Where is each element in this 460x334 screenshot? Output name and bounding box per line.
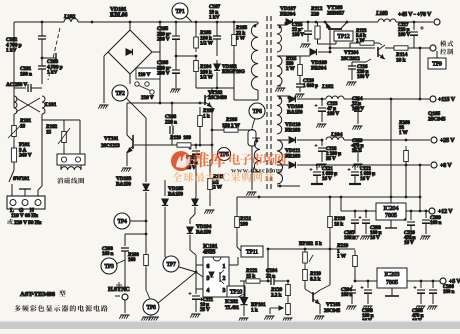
test point TP5: [218, 148, 231, 161]
svg-text:TP3: TP3: [104, 264, 113, 270]
wire VT103 base drive: [329, 29, 331, 52]
resistor R106: [212, 128, 250, 132]
test point TP10 box: [227, 286, 245, 297]
resistor R110: [172, 143, 196, 147]
resistor R100: [144, 252, 149, 268]
capacitor C107: [216, 22, 218, 36]
svg-text:VD110FR103: VD110FR103: [285, 122, 301, 133]
capacitor C108: [171, 103, 173, 126]
diode VD103: [145, 165, 147, 182]
capacitor C205: [420, 281, 422, 288]
ground primary mid: [170, 89, 180, 93]
test point TP6: [249, 103, 265, 119]
test point TP2: [112, 85, 128, 101]
ground secondary tap: [275, 88, 285, 92]
wire VT101 emitter ground: [126, 152, 128, 166]
wire to C100 branch: [125, 233, 146, 235]
svg-text:TP6: TP6: [252, 109, 261, 115]
resistor R112: [315, 26, 320, 39]
svg-text:220 V 50 Hz: 220 V 50 Hz: [14, 220, 42, 226]
resistor R122: [240, 279, 266, 283]
wire L103 to +45V terminal: [396, 21, 433, 23]
wire VT105 emitter ground: [319, 304, 321, 314]
pot RP102: [303, 249, 308, 266]
svg-text:VD103BA150: VD103BA150: [116, 176, 132, 187]
resistor R107: [199, 107, 201, 112]
wire TP11 to R121: [237, 247, 241, 251]
transistor VT105: [313, 290, 320, 304]
svg-text:IC204: IC204: [384, 206, 399, 212]
terminal +115V: [430, 96, 436, 102]
svg-text:L103: L103: [375, 11, 388, 17]
resistor R102: [62, 126, 67, 148]
transformer secondary winding 4: [277, 140, 283, 184]
svg-text:VD111FR103: VD111FR103: [285, 148, 300, 159]
test point TP12 box: [334, 31, 353, 41]
svg-text:TP1: TP1: [175, 9, 184, 15]
inductor L102: [64, 19, 78, 22]
wire TP2 column to VD103: [145, 118, 147, 165]
wire IC203 out: [407, 280, 440, 282]
svg-text:VD106BA150: VD106BA150: [287, 104, 303, 115]
wire left border vertical: [13, 22, 15, 108]
wire TP7 to IC101: [179, 267, 196, 272]
resistor R104: [194, 56, 199, 76]
capacitor C106: [175, 56, 177, 70]
connector earth pin: [24, 189, 26, 196]
wire N to connector: [41, 120, 43, 186]
wire R113 ends: [350, 42, 355, 44]
capacitor C116: [348, 66, 356, 69]
test point TP1: [172, 3, 188, 19]
scan bottom gray band: [0, 322, 460, 329]
test point TP3: [101, 258, 117, 274]
svg-text:SW101: SW101: [13, 176, 30, 182]
svg-text:4: 4: [207, 288, 210, 294]
connector plug box L G N: [7, 196, 45, 209]
switch SW101: [9, 170, 14, 182]
wire VT104 emitter: [366, 59, 371, 62]
IC203 box: [377, 268, 407, 288]
transformer feedback winding: [252, 137, 260, 139]
wire R102 branch: [41, 114, 43, 120]
wire R116 bottom: [329, 250, 331, 285]
svg-text:C101100 n: C101100 n: [20, 66, 32, 77]
inductor L104: [326, 137, 344, 140]
wire R103-R104 tie: [176, 55, 196, 57]
inductor L103: [378, 19, 396, 22]
wire VT105 collector up: [320, 285, 330, 290]
resistor R111: [209, 160, 211, 174]
resistor R119: [303, 266, 308, 284]
wire top bus to bridge: [78, 21, 160, 23]
resistor R219: [354, 250, 356, 252]
svg-text:2SC945: 2SC945: [324, 308, 341, 314]
choke L101 left winding: [14, 96, 17, 114]
svg-text:C209100 n: C209100 n: [430, 215, 441, 226]
svg-text:VD107FR304: VD107FR304: [280, 6, 296, 17]
wire R105 to transformer top: [233, 60, 235, 88]
wire secondary taps: [277, 24, 285, 26]
capacitor C122: [354, 165, 356, 170]
wire VT102 emitter net: [211, 107, 213, 160]
capacitor C203: [367, 281, 369, 288]
capacitor C208: [365, 211, 367, 218]
capacitor C118: [321, 140, 323, 146]
ground TP8: [150, 315, 152, 316]
transistor VT103: [325, 22, 347, 29]
wire C108 down: [171, 134, 173, 145]
shunt reg IC102 TL431: [240, 280, 244, 282]
terminal mode control: [430, 45, 436, 51]
ground RP101: [282, 318, 292, 322]
svg-text:H.SYNC: H.SYNC: [108, 287, 130, 293]
wire R110 to R107: [196, 144, 212, 146]
transformer core dashed lines: [266, 16, 268, 192]
svg-text:C105220 µ200 V: C105220 µ200 V: [157, 26, 170, 43]
terminal +12V: [429, 208, 435, 214]
svg-text:AST-TE3498: AST-TE3498: [20, 291, 56, 298]
wire bus drop from transformer ground region: [258, 196, 260, 197]
fuse F101: [13, 140, 15, 148]
capacitor C112: [195, 144, 198, 147]
choke L101 right winding: [42, 96, 45, 114]
svg-text:6: 6: [207, 264, 210, 270]
svg-text:TP11: TP11: [246, 250, 258, 256]
ground feedback winding: [246, 192, 256, 196]
wire H.SYNC: [124, 262, 126, 292]
resistor R120: [286, 281, 291, 299]
resistor R121: [236, 197, 238, 212]
diode VD102: [214, 64, 220, 70]
terminal +5V: [440, 278, 446, 284]
diode VD104: [190, 214, 195, 219]
IC101 box: [203, 257, 229, 297]
svg-text:+45 V - +70 V: +45 V - +70 V: [398, 12, 432, 18]
svg-text:TP9: TP9: [432, 62, 442, 68]
IC204 ground pin: [390, 220, 392, 228]
svg-text:+8 V: +8 V: [440, 163, 452, 169]
selector contacts: [135, 82, 139, 86]
transformer secondary winding 2: [277, 56, 282, 86]
svg-text:IC203: IC203: [385, 272, 400, 278]
svg-text:C106220 µ200 V: C106220 µ200 V: [157, 60, 170, 77]
svg-text:R110 100: R110 100: [169, 135, 191, 141]
svg-text:2: 2: [223, 276, 226, 282]
svg-text:110 V: 110 V: [138, 72, 150, 78]
svg-text:7805: 7805: [386, 280, 398, 286]
capacitor C104: [271, 277, 274, 285]
capacitor C121: [316, 165, 318, 170]
capacitor C206: [432, 281, 434, 288]
svg-text:C108220 n: C108220 n: [165, 114, 177, 125]
svg-text:L101: L101: [44, 102, 57, 108]
wire VT102 base row: [127, 102, 205, 104]
wire top bus middle: [160, 21, 258, 23]
capacitor C119: [357, 140, 359, 146]
thermistor R101: [12, 122, 17, 140]
wire IC101 pin4: [196, 288, 203, 290]
wire VD109 to VT104 base: [330, 47, 375, 49]
choke cross wires: [16, 98, 40, 112]
capacitor C105: [175, 22, 177, 36]
capacitor C117: [413, 22, 415, 30]
diode VD111: [289, 162, 295, 168]
degaussing coil symbol: [61, 167, 81, 170]
svg-text:2SC1912: 2SC1912: [341, 56, 360, 62]
svg-text:TP10: TP10: [230, 290, 242, 296]
capacitor C100: [121, 248, 129, 251]
svg-text:R1198.2 k: R1198.2 k: [309, 271, 321, 282]
test point TP9 box: [428, 58, 446, 69]
wire x420 8V to 12V: [419, 165, 421, 211]
terminal +25V: [431, 137, 437, 143]
capacitor C207: [354, 211, 356, 218]
wire VD103 junction: [145, 220, 148, 223]
bridge rectifier VD101: [108, 30, 152, 74]
capacitor C101: [14, 87, 26, 89]
svg-text:3: 3: [223, 288, 226, 294]
wire pot wiper stub: [269, 308, 271, 314]
wire VT101 collector up: [126, 103, 128, 135]
svg-text:TP7: TP7: [166, 262, 175, 268]
wire rail to VT103: [308, 21, 378, 23]
capacitor C103: [38, 66, 46, 69]
svg-text:TP12: TP12: [337, 34, 349, 40]
watermark logo circle: [171, 151, 191, 171]
svg-text:RP102 5 k: RP102 5 k: [299, 241, 322, 247]
capacitor C113: [321, 99, 323, 106]
transformer core dashes L101/L102 coupling: [48, 28, 60, 80]
svg-text:110 V 60 Hz: 110 V 60 Hz: [11, 213, 39, 219]
watermark text main: [194, 152, 226, 168]
diode VD106: [289, 96, 295, 102]
resistor R113: [355, 41, 379, 45]
IC204 box: [376, 203, 406, 220]
pot RP101: [287, 299, 289, 302]
wire VT101 base to R110: [134, 144, 172, 146]
svg-text:220 V: 220 V: [141, 95, 154, 101]
wire L101 down to R101: [13, 114, 15, 122]
svg-text:2SC1213: 2SC1213: [101, 143, 120, 149]
svg-text:R1202.2 k: R1202.2 k: [270, 287, 283, 298]
svg-text:VT1032SB857: VT1032SB857: [327, 5, 344, 16]
wire primary snubber ties: [196, 87, 234, 89]
diode VD105: [164, 180, 166, 196]
capacitor C102: [41, 22, 43, 36]
svg-text:L102: L102: [63, 14, 76, 20]
stub node: [42, 57, 56, 59]
degauss connector box: [57, 154, 85, 165]
wire to primary winding: [257, 22, 259, 24]
resistor R115: [299, 56, 301, 60]
voltage selector 110V box: [136, 68, 160, 79]
resistor R114: [388, 46, 414, 50]
svg-text:L104: L104: [330, 132, 343, 138]
capacitor C115: [307, 22, 309, 30]
wire error amp top row: [268, 248, 355, 250]
diode VD109: [310, 49, 316, 55]
resistor R103: [195, 22, 197, 33]
wire VD105 to TP7: [164, 250, 166, 257]
wire VT102 collector to transformer: [211, 88, 213, 93]
svg-text:+25 V: +25 V: [440, 138, 455, 144]
wire long bus y197: [237, 196, 420, 198]
transistor VT102: [205, 93, 212, 107]
caption line 2: [14, 305, 107, 312]
wire +8V bus: [317, 164, 430, 166]
IC203 ground pin: [391, 288, 393, 296]
capacitor C210: [410, 211, 412, 220]
wire bridge bottom to switch: [129, 74, 131, 84]
svg-text:TL431: TL431: [225, 305, 240, 311]
svg-text:AC 250 V: AC 250 V: [6, 82, 27, 88]
diode BA150 on C112 column: [195, 197, 196, 199]
svg-text:VD104BA150: VD104BA150: [196, 224, 212, 235]
wire 12V input row: [340, 197, 342, 211]
terminal +45V: [434, 19, 440, 25]
capacitor C204: [351, 285, 353, 288]
capacitor C209: [425, 211, 427, 218]
svg-text:TP8: TP8: [146, 305, 155, 311]
wire mode line down: [419, 48, 421, 64]
capacitor C120: [299, 80, 301, 84]
test point TP8: [143, 299, 159, 315]
watermark text slogan: [172, 172, 274, 182]
wire x391 197 to 211: [390, 140, 392, 197]
transformer primary winding: [251, 24, 258, 90]
diode VD107: [284, 22, 286, 25]
wire primary bottom to VT102 collector: [257, 90, 259, 100]
capacitor C114: [357, 99, 359, 106]
wire top bus left segment: [14, 21, 64, 23]
terminal +8V: [431, 162, 437, 168]
svg-text:L102: L102: [321, 84, 334, 90]
svg-text:1: 1: [223, 264, 226, 270]
transistor VT104: [378, 45, 385, 59]
svg-text:C206100 n: C206100 n: [443, 284, 454, 295]
wire TP11 down to opto: [237, 257, 239, 265]
svg-text:VD109FR304: VD109FR304: [311, 60, 327, 71]
svg-text:C100100 n: C100100 n: [102, 246, 113, 257]
svg-text:VT101: VT101: [104, 136, 119, 142]
diode VD110: [289, 137, 295, 143]
wire C102 to C103 node: [41, 58, 43, 66]
wire x391 vertical: [390, 99, 392, 140]
wire L102 to +115V: [344, 98, 430, 100]
wire x406 140 to 197: [405, 166, 407, 197]
wire vertical x160: [159, 22, 161, 52]
svg-text:VD101KBL06: VD101KBL06: [110, 7, 128, 19]
resistor R105: [233, 22, 235, 30]
svg-text:+115 V: +115 V: [438, 97, 456, 103]
resistor R260: [404, 146, 409, 166]
wire R260 bottom to bus: [405, 165, 407, 166]
resistor R109 feedback: [251, 129, 254, 132]
inductor L102 output: [322, 98, 326, 100]
wire R219 to IC203: [355, 280, 377, 282]
resistor R116: [329, 197, 331, 212]
capacitor C111: [195, 272, 197, 294]
test point TP11 box: [241, 246, 263, 257]
svg-text:7805: 7805: [385, 213, 397, 219]
test point TP4: [114, 213, 130, 229]
terminal H.SYNC: [122, 294, 128, 300]
wire IC204 out: [406, 210, 429, 212]
svg-text:TP2: TP2: [115, 91, 124, 97]
test point TP7: [163, 256, 179, 272]
transformer secondary winding 1: [277, 25, 282, 52]
wire L104 to +25V: [344, 139, 430, 141]
IC101 pin wires: [196, 264, 203, 266]
transistor VT101: [127, 135, 133, 153]
svg-text:150 2 W: 150 2 W: [222, 123, 240, 129]
svg-text:C207100 n: C207100 n: [344, 230, 355, 241]
transformer secondary winding 3: [277, 96, 282, 134]
bridge minus ground drop: [104, 52, 108, 56]
svg-text:TP4: TP4: [117, 219, 126, 225]
svg-text:VD105BA150: VD105BA150: [168, 186, 184, 197]
